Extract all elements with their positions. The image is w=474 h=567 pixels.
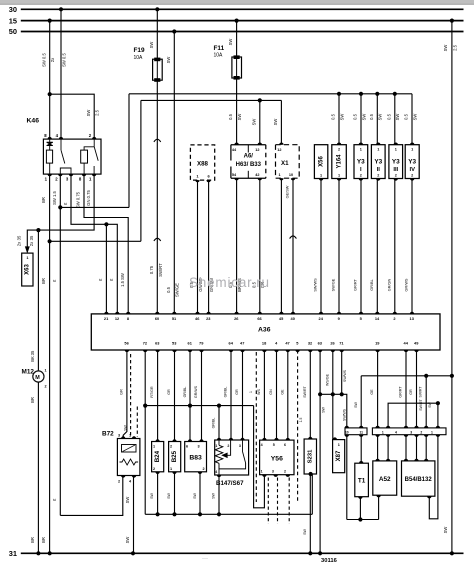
svg-text:GR/RT: GR/RT [354,278,358,290]
svg-text:4: 4 [395,431,397,435]
svg-text:SW: SW [443,527,448,534]
svg-text:II: II [377,167,381,173]
svg-text:0.75: 0.75 [149,265,154,274]
svg-text:6: 6 [186,445,188,449]
junctions on L1 [337,92,341,96]
svg-text:SW: SW [395,114,400,121]
wire K46 pin2 down (to B72 loop) [59,174,61,515]
wire bus 30 [21,8,464,10]
junction to terminal bar [424,374,428,378]
svg-text:1: 1 [411,147,413,151]
svg-text:GR/WS: GR/WS [405,278,409,291]
svg-text:10: 10 [345,430,349,434]
svg-text:2: 2 [395,174,397,178]
svg-text:1: 1 [153,445,155,449]
valve block Y56 [260,440,294,475]
svg-text:SW: SW [237,114,242,121]
svg-text:3: 3 [410,431,412,435]
svg-text:SW/WS: SW/WS [343,369,347,382]
connector X87 [333,440,345,473]
wire S231 to bus 31 [309,474,311,553]
svg-text:SW: SW [125,497,130,504]
wire pin11 to T1 [360,435,362,464]
svg-text:1: 1 [320,174,322,178]
wire X88 pin1 to A36 pin 46 [197,180,199,314]
wire bus30 to K46 pin 4 [60,9,62,139]
A36 bottom pins [125,350,129,352]
svg-text:BK: BK [30,356,35,362]
svg-text:X88: X88 [197,161,209,168]
wire L1 solenoid supply [129,93,412,95]
svg-text:SW: SW [361,114,366,121]
wire B147 pin4 to ground line [218,475,220,514]
svg-text:X87: X87 [336,450,342,461]
svg-text:2.5: 2.5 [452,44,457,50]
svg-text:SW/WS: SW/WS [314,278,318,292]
wire A36 pin79 to B83 pin3 [201,350,203,442]
wire B72 pin4 to bus 31 [133,476,135,554]
svg-text:3: 3 [272,469,274,473]
svg-text:SW: SW [150,493,154,499]
svg-text:GE: GE [370,389,374,395]
svg-text:GN 0.75: GN 0.75 [86,190,91,206]
svg-text:SW: SW [428,401,432,407]
K46 contact 2 coil [81,150,88,163]
K46 contact 1 [60,139,62,150]
ground collector line [145,513,312,515]
svg-text:1: 1 [395,147,397,151]
svg-text:B83: B83 [189,455,202,462]
svg-text:1: 1 [26,256,28,260]
junction pin71 jog [340,392,344,396]
svg-text:0.5: 0.5 [386,113,391,119]
sensor/switch B147/S67 [215,440,249,475]
unit A6 / H63 / B33 [231,144,266,146]
svg-text:SW: SW [124,424,128,430]
junction dots on bus 31 [36,551,40,555]
svg-text:GR/BL: GR/BL [212,418,216,429]
svg-text:GR: GR [235,389,239,395]
wire A36 pin4 to Y56 pin5 [276,350,278,440]
svg-text:Y3: Y3 [392,159,400,166]
svg-text:1: 1 [215,444,217,448]
svg-text:GR/BL: GR/BL [183,387,187,398]
svg-text:SW 0.75: SW 0.75 [76,191,81,208]
svg-text:2: 2 [118,480,120,484]
ground loop to Y56 pin 1 [254,406,265,508]
svg-text:Y3: Y3 [374,159,382,166]
ground collector to S231 bottom [311,474,313,514]
svg-text:1.5: 1.5 [299,418,303,423]
wire to X63 [27,230,38,248]
wire A36 pin56 to B72 pin 3 [123,350,127,439]
svg-text:2: 2 [227,444,229,448]
wire L2 to A6 pin 12 [259,100,261,144]
svg-text:3: 3 [118,434,120,438]
Y56 dashed lower wires [267,478,269,525]
svg-text:A6/: A6/ [244,154,254,160]
svg-text:10A: 10A [214,53,224,59]
wire power to bar pin 5 [425,376,427,428]
svg-text:GR: GR [120,389,124,395]
svg-text:50: 50 [9,27,17,36]
svg-text:SW: SW [86,110,91,117]
svg-text:B54/B132: B54/B132 [405,477,433,483]
wire bus 15 [21,20,464,22]
dashed variant wires flanking Y56 [255,352,257,502]
svg-text:BR: BR [30,537,35,543]
svg-text:35: 35 [17,235,22,240]
wire node to M12 pin 1 [37,230,39,371]
svg-text:1: 1 [279,173,281,177]
svg-text:2.5: 2.5 [95,109,100,115]
svg-text:11: 11 [359,430,363,434]
junction dots on buses [59,7,63,11]
svg-text:6: 6 [284,443,286,447]
svg-text:SW: SW [167,493,171,499]
wire power to connector pin 11 [360,376,362,428]
svg-text:K46: K46 [27,118,40,125]
svg-text:2: 2 [284,469,286,473]
svg-text:SW 0.5: SW 0.5 [62,52,67,66]
screen dashed line at B72 [130,354,132,437]
wires valves to A36 top pins [320,179,322,314]
svg-text:A36: A36 [258,327,271,334]
sensor B83 [185,442,207,472]
svg-text:SW: SW [354,402,358,408]
K46 coil with diode [47,142,53,145]
connector X1 [276,145,300,179]
svg-text:0.5: 0.5 [369,113,374,119]
wire L2 to X1 pin 12 [280,100,282,144]
svg-text:BR: BR [41,197,46,203]
wire bar pin5 to B54/B132 [425,435,427,461]
direction arrow on F19 wire lower [154,238,161,241]
wire B83 to ground line [199,472,201,515]
solenoid valve Y3 II [371,145,385,179]
wire up to A52 [378,495,380,519]
wire F11 to A6 pin 44 [236,78,238,145]
svg-text:GR/WS: GR/WS [194,385,198,398]
svg-text:1: 1 [45,369,47,373]
wire A36 pin64 to B147 pin2 [230,350,232,440]
svg-text:0.5: 0.5 [353,113,358,119]
svg-text:SW: SW [212,493,216,499]
junctions on ground collector [156,512,160,516]
wire A36 pin47 to B147 pin3 [242,350,244,440]
wire bar pin1 to A52 [377,435,379,461]
ground net drop [144,406,146,515]
K46 bottom pins [48,174,52,176]
svg-text:2: 2 [360,174,362,178]
svg-text:4: 4 [215,470,217,474]
wire K46 pin3 to A36 pin 12 [71,174,117,314]
svg-text:GR: GR [409,389,413,395]
svg-text:GR/BL: GR/BL [370,279,374,290]
wire A36 pin71 down to jog [341,350,343,394]
wire B24 to ground line [157,472,159,515]
K46 top pins 8,4,2 [48,137,52,139]
svg-text:1: 1 [249,391,253,393]
fuse F19 10A [153,59,163,80]
svg-text:BR: BR [41,278,46,284]
svg-text:B147/S67: B147/S67 [216,480,244,487]
svg-text:GN: GN [269,389,273,395]
junction M12/X63 node [36,228,40,232]
unit S231 [304,439,316,474]
svg-text:Shemicar.ru: Shemicar.ru [189,275,270,290]
svg-text:F19: F19 [134,47,145,54]
ground net horizontal [145,405,253,407]
svg-text:SW: SW [443,45,448,52]
svg-text:H63/ B33: H63/ B33 [236,162,262,168]
svg-text:10A: 10A [134,55,144,61]
wire A6 pin54 to A36 pin 26 [236,178,238,314]
svg-text:B25: B25 [171,450,178,462]
svg-text:BR: BR [30,397,35,403]
svg-text:1: 1 [261,469,263,473]
fuse F11 10A [232,57,242,78]
svg-text:Y56: Y56 [271,456,283,463]
connector X88 [190,145,214,180]
wire A36 pin32 to S231 [309,350,311,439]
svg-text:4: 4 [261,443,263,447]
wire M12 pin2 to bus 31 [37,382,39,553]
svg-text:1: 1 [431,431,433,435]
svg-text:15: 15 [9,16,17,25]
wire K46 pin1 to M12 node [38,174,94,230]
solenoid valve Y3 III [389,145,403,179]
wires A36 to terminal bar [377,350,379,428]
svg-text:Y164: Y164 [336,154,342,169]
svg-text:SW: SW [378,114,383,121]
wire bar pin3 to B54/B132 [405,435,407,461]
svg-text:RT/GR: RT/GR [150,386,154,398]
wire bus30 to F19 [156,9,158,59]
svg-text:3: 3 [239,444,241,448]
junction ground net [143,404,147,408]
svg-text:B24: B24 [154,450,161,462]
connector X63 [22,253,33,286]
svg-text:2: 2 [377,174,379,178]
svg-text:0.5: 0.5 [404,113,409,119]
svg-text:10: 10 [289,173,293,177]
svg-text:SW/GE: SW/GE [332,278,336,291]
wire bus50 to A36 pin 51 [173,32,175,314]
branch to connector pin 10 [320,394,347,428]
wire F19 to A36 pin 60 [156,80,158,314]
svg-text:IV: IV [409,167,415,173]
wire bar pin4 to B54/B132 [416,435,418,461]
wire H1: D1 to solenoid feed riser [60,206,129,208]
svg-text:SW: SW [149,42,154,49]
svg-text:47: 47 [285,340,289,345]
wire A6 pin42 to A36 pin 66 [259,178,261,314]
wire T1 to ground link [359,497,361,520]
svg-text:A52: A52 [379,476,391,483]
wires L1 to solenoid valves [338,94,340,145]
svg-text:X1: X1 [281,160,289,167]
svg-text:47: 47 [240,340,244,345]
svg-text:31: 31 [9,549,17,558]
svg-text:SW/RT: SW/RT [303,385,307,397]
wire A36 pin47 to Y56 pin6 [287,350,289,440]
connector X56 [314,145,327,179]
svg-text:SW 0.5: SW 0.5 [42,52,47,66]
svg-text:2: 2 [338,147,340,151]
wire A36 pin63 to B24 [157,350,159,442]
wire A36 pin26 to X87 [332,350,334,440]
svg-text:M: M [35,375,40,381]
B147 potentiometer with wiper [218,440,220,445]
unit A52 [373,461,397,495]
sensor B72 (heated) [117,439,139,476]
wire A36 pin63 to bus 31 [319,350,321,553]
svg-text:SW: SW [125,537,130,544]
junction on X87 wire [331,392,335,396]
svg-text:1: 1 [382,431,384,435]
svg-text:SW 1.5: SW 1.5 [52,190,57,204]
wire X1 pin10 to A36 pin 40 [292,178,294,314]
svg-text:SW: SW [166,57,171,64]
wire branch to K46 pin 2 [50,94,94,139]
svg-text:12: 12 [277,148,281,152]
junction T1 ground [358,517,362,521]
wire to B72 pin 2 [60,476,123,516]
svg-text:—: — [202,556,208,562]
wire A36 pin72 down [144,350,146,406]
junction D1 [58,205,62,209]
sensor B25 [169,442,181,472]
wire K46 pin8 to A36 pin 8 [84,174,128,314]
svg-text:SW/RT: SW/RT [158,263,163,277]
svg-text:1: 1 [338,174,340,178]
svg-text:0.5: 0.5 [228,113,233,119]
svg-text:WS: WS [257,389,261,395]
connector pins 10 11 [345,428,367,435]
solenoid valve Y164 [332,145,347,179]
svg-text:1: 1 [360,147,362,151]
wire bus15 to F11 [236,21,238,57]
svg-text:SW/WS: SW/WS [342,408,346,421]
svg-text:SW/RT: SW/RT [419,387,423,398]
wire power branch to T1/bar [361,375,452,377]
wire bar pin2 to A52 [387,435,389,461]
svg-text:Y3: Y3 [357,159,365,166]
junction on pin3 route [104,222,108,226]
svg-text:S231: S231 [308,449,314,463]
svg-text:GR/GN: GR/GN [387,279,391,292]
arrow into X63 [25,247,29,253]
screen dashed line 2 at B72 [136,407,138,438]
svg-text:2: 2 [420,431,422,435]
svg-text:SW: SW [193,493,197,499]
solenoid valve Y3 I [354,145,368,179]
svg-text:2: 2 [45,385,47,389]
A36 top pins [104,312,108,314]
svg-text:35: 35 [30,350,35,355]
wire bus 50 [21,31,464,33]
wire bus15 right drop [451,21,453,554]
svg-text:1: 1 [338,443,340,447]
wire branch to A36 pin 21 [105,224,107,314]
relay K46 [43,139,101,174]
svg-text:1: 1 [170,467,172,471]
svg-text:35: 35 [29,235,34,240]
svg-text:1: 1 [377,147,379,151]
B72 heater resistor [120,459,139,465]
svg-text:60: 60 [155,316,159,321]
wire A36 pin18 to Y56 pin4 [263,350,265,440]
junction S231 bottom [309,472,313,476]
svg-text:1.5 SW: 1.5 SW [120,273,125,287]
wire pin10 to ground line [346,435,348,520]
svg-text:2: 2 [203,467,205,471]
junction on L2 [258,98,262,102]
ignition coil T1 [355,463,369,497]
wire X1 pin1 to A36 pin 45 [280,178,282,314]
solenoid valve Y3 IV [405,145,419,179]
svg-text:SW: SW [412,114,417,121]
svg-text:0.5: 0.5 [331,113,336,119]
direction arrow on F19 wire [154,139,161,142]
svg-text:GE/SW: GE/SW [286,185,290,198]
riser to line L1 [128,94,130,208]
wire A36 pin53 to B25 [174,350,176,442]
svg-text:40: 40 [291,316,295,321]
svg-text:2: 2 [411,174,413,178]
svg-text:30116: 30116 [321,558,338,564]
svg-text:SW: SW [273,119,278,126]
wire B25 to ground line [174,472,176,515]
svg-text:SW: SW [303,529,307,535]
svg-text:5: 5 [273,443,275,447]
svg-text:WS/GE: WS/GE [325,373,329,386]
junction on K46 supply [48,92,52,96]
B72 internal element [122,445,137,453]
junction bus15 branch [450,374,454,378]
svg-text:0.5: 0.5 [166,286,171,292]
svg-text:III: III [393,167,398,173]
wire X88 pin6 to A36 pin 23 [208,180,210,314]
svg-text:30: 30 [9,5,17,14]
svg-text:F11: F11 [214,45,225,52]
wire K46 pin1 to bus 31 [49,174,51,553]
svg-text:42: 42 [255,173,259,177]
bar pin2 loop to B132 bottom [388,403,438,428]
svg-text:X56: X56 [319,156,325,167]
wire H5: D3 to A6/X1 feed riser [50,240,141,242]
junction loop [436,401,440,405]
svg-text:SW: SW [228,39,233,46]
svg-text:BR: BR [41,537,46,543]
svg-text:X63: X63 [25,264,31,275]
svg-text:T1: T1 [358,478,366,485]
svg-text:GR/RT: GR/RT [399,386,403,398]
control unit A36 [91,314,440,350]
wire bus15 to K46 pin 8 [49,21,51,140]
svg-text:SW/RT: SW/RT [419,398,423,410]
riser to line L2 [140,100,142,241]
svg-text:GR/BL: GR/BL [224,387,228,398]
junction D3 [48,239,52,243]
wire ground net to B147 pin1 [218,406,220,440]
terminal bar connector [372,428,446,435]
svg-text:3: 3 [198,445,200,449]
svg-text:Y3: Y3 [408,159,416,166]
junction on pin63 wire [318,392,322,396]
svg-text:12: 12 [255,148,259,152]
